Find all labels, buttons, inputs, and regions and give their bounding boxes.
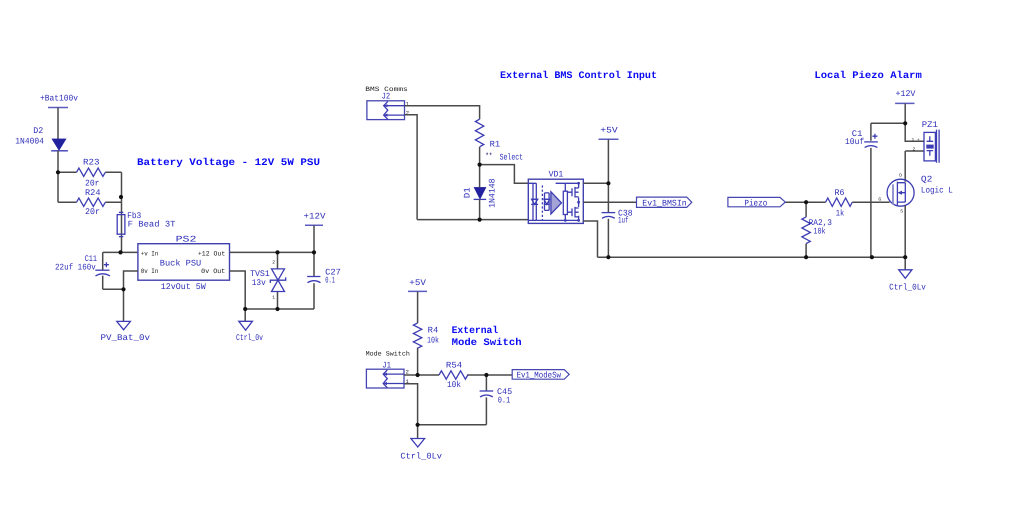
svg-text:1: 1 — [272, 294, 275, 300]
svg-text:1N4004: 1N4004 — [15, 137, 44, 147]
svg-text:R4: R4 — [428, 326, 439, 336]
svg-text:Select: Select — [500, 152, 523, 162]
svg-text:2: 2 — [272, 260, 275, 266]
svg-text:0v In: 0v In — [141, 268, 159, 275]
svg-text:+12V: +12V — [304, 211, 327, 221]
svg-text:PS2: PS2 — [176, 234, 197, 244]
svg-text:R1: R1 — [490, 140, 501, 150]
svg-text:R23: R23 — [83, 158, 100, 168]
svg-text:Buck PSU: Buck PSU — [160, 259, 201, 269]
svg-text:+5V: +5V — [409, 278, 426, 288]
svg-text:1k: 1k — [836, 208, 845, 218]
svg-text:22uf 160v: 22uf 160v — [55, 263, 96, 273]
svg-text:+v In: +v In — [141, 250, 159, 257]
svg-text:10k: 10k — [427, 336, 439, 346]
svg-text:Battery Voltage - 12V 5W PSU: Battery Voltage - 12V 5W PSU — [137, 157, 320, 169]
svg-text:0v Out: 0v Out — [201, 268, 225, 275]
svg-text:Ev1_ModeSw: Ev1_ModeSw — [517, 370, 562, 380]
svg-text:+Bat100v: +Bat100v — [40, 94, 78, 104]
svg-text:0.1: 0.1 — [498, 395, 511, 405]
svg-text:Q2: Q2 — [921, 175, 933, 185]
svg-text:Ctrl_0Lv: Ctrl_0Lv — [400, 451, 442, 461]
svg-text:S: S — [900, 208, 903, 214]
svg-text:J2: J2 — [382, 92, 391, 102]
svg-text:0.1: 0.1 — [325, 275, 335, 285]
svg-text:Ctrl_0v: Ctrl_0v — [236, 333, 263, 343]
svg-text:1: 1 — [406, 101, 409, 107]
svg-text:R24: R24 — [85, 188, 101, 198]
svg-text:20r: 20r — [85, 178, 100, 188]
svg-text:+5V: +5V — [600, 125, 618, 135]
svg-text:External BMS Control Input: External BMS Control Input — [500, 70, 657, 82]
svg-text:PV_Bat_0v: PV_Bat_0v — [101, 333, 151, 343]
svg-text:1uf: 1uf — [618, 215, 629, 225]
svg-text:VD1: VD1 — [549, 169, 564, 179]
svg-text:Piezo: Piezo — [744, 198, 767, 208]
svg-text:2: 2 — [913, 147, 916, 153]
svg-text:12vOut 5W: 12vOut 5W — [161, 282, 207, 292]
svg-text:20r: 20r — [85, 207, 100, 217]
svg-text:**: ** — [485, 151, 492, 161]
svg-text:+12V: +12V — [896, 89, 917, 99]
svg-text:13v: 13v — [252, 278, 266, 288]
svg-text:10k: 10k — [813, 226, 825, 236]
svg-text:R6: R6 — [835, 188, 845, 198]
svg-text:Mode Switch: Mode Switch — [366, 351, 410, 358]
svg-text:D: D — [899, 173, 902, 179]
svg-text:Ev1_BMSIn: Ev1_BMSIn — [642, 198, 686, 208]
svg-text:D2: D2 — [33, 126, 43, 136]
svg-text:10uf: 10uf — [845, 137, 864, 147]
svg-text:External: External — [452, 325, 499, 337]
svg-text:F Bead 3T: F Bead 3T — [128, 219, 176, 229]
svg-text:Local Piezo Alarm: Local Piezo Alarm — [814, 70, 921, 82]
svg-text:1N4148: 1N4148 — [488, 178, 498, 208]
svg-text:10k: 10k — [447, 380, 461, 390]
svg-text:Mode Switch: Mode Switch — [452, 337, 522, 349]
svg-text:1 +: 1 + — [912, 137, 921, 143]
svg-text:D1: D1 — [462, 187, 472, 198]
svg-text:2: 2 — [406, 110, 409, 116]
svg-text:Logic L: Logic L — [921, 186, 953, 196]
svg-text:PZ1: PZ1 — [922, 120, 938, 130]
svg-text:+12 Out: +12 Out — [198, 250, 225, 257]
svg-text:Ctrl_0Lv: Ctrl_0Lv — [889, 283, 926, 293]
svg-text:R54: R54 — [446, 361, 462, 371]
